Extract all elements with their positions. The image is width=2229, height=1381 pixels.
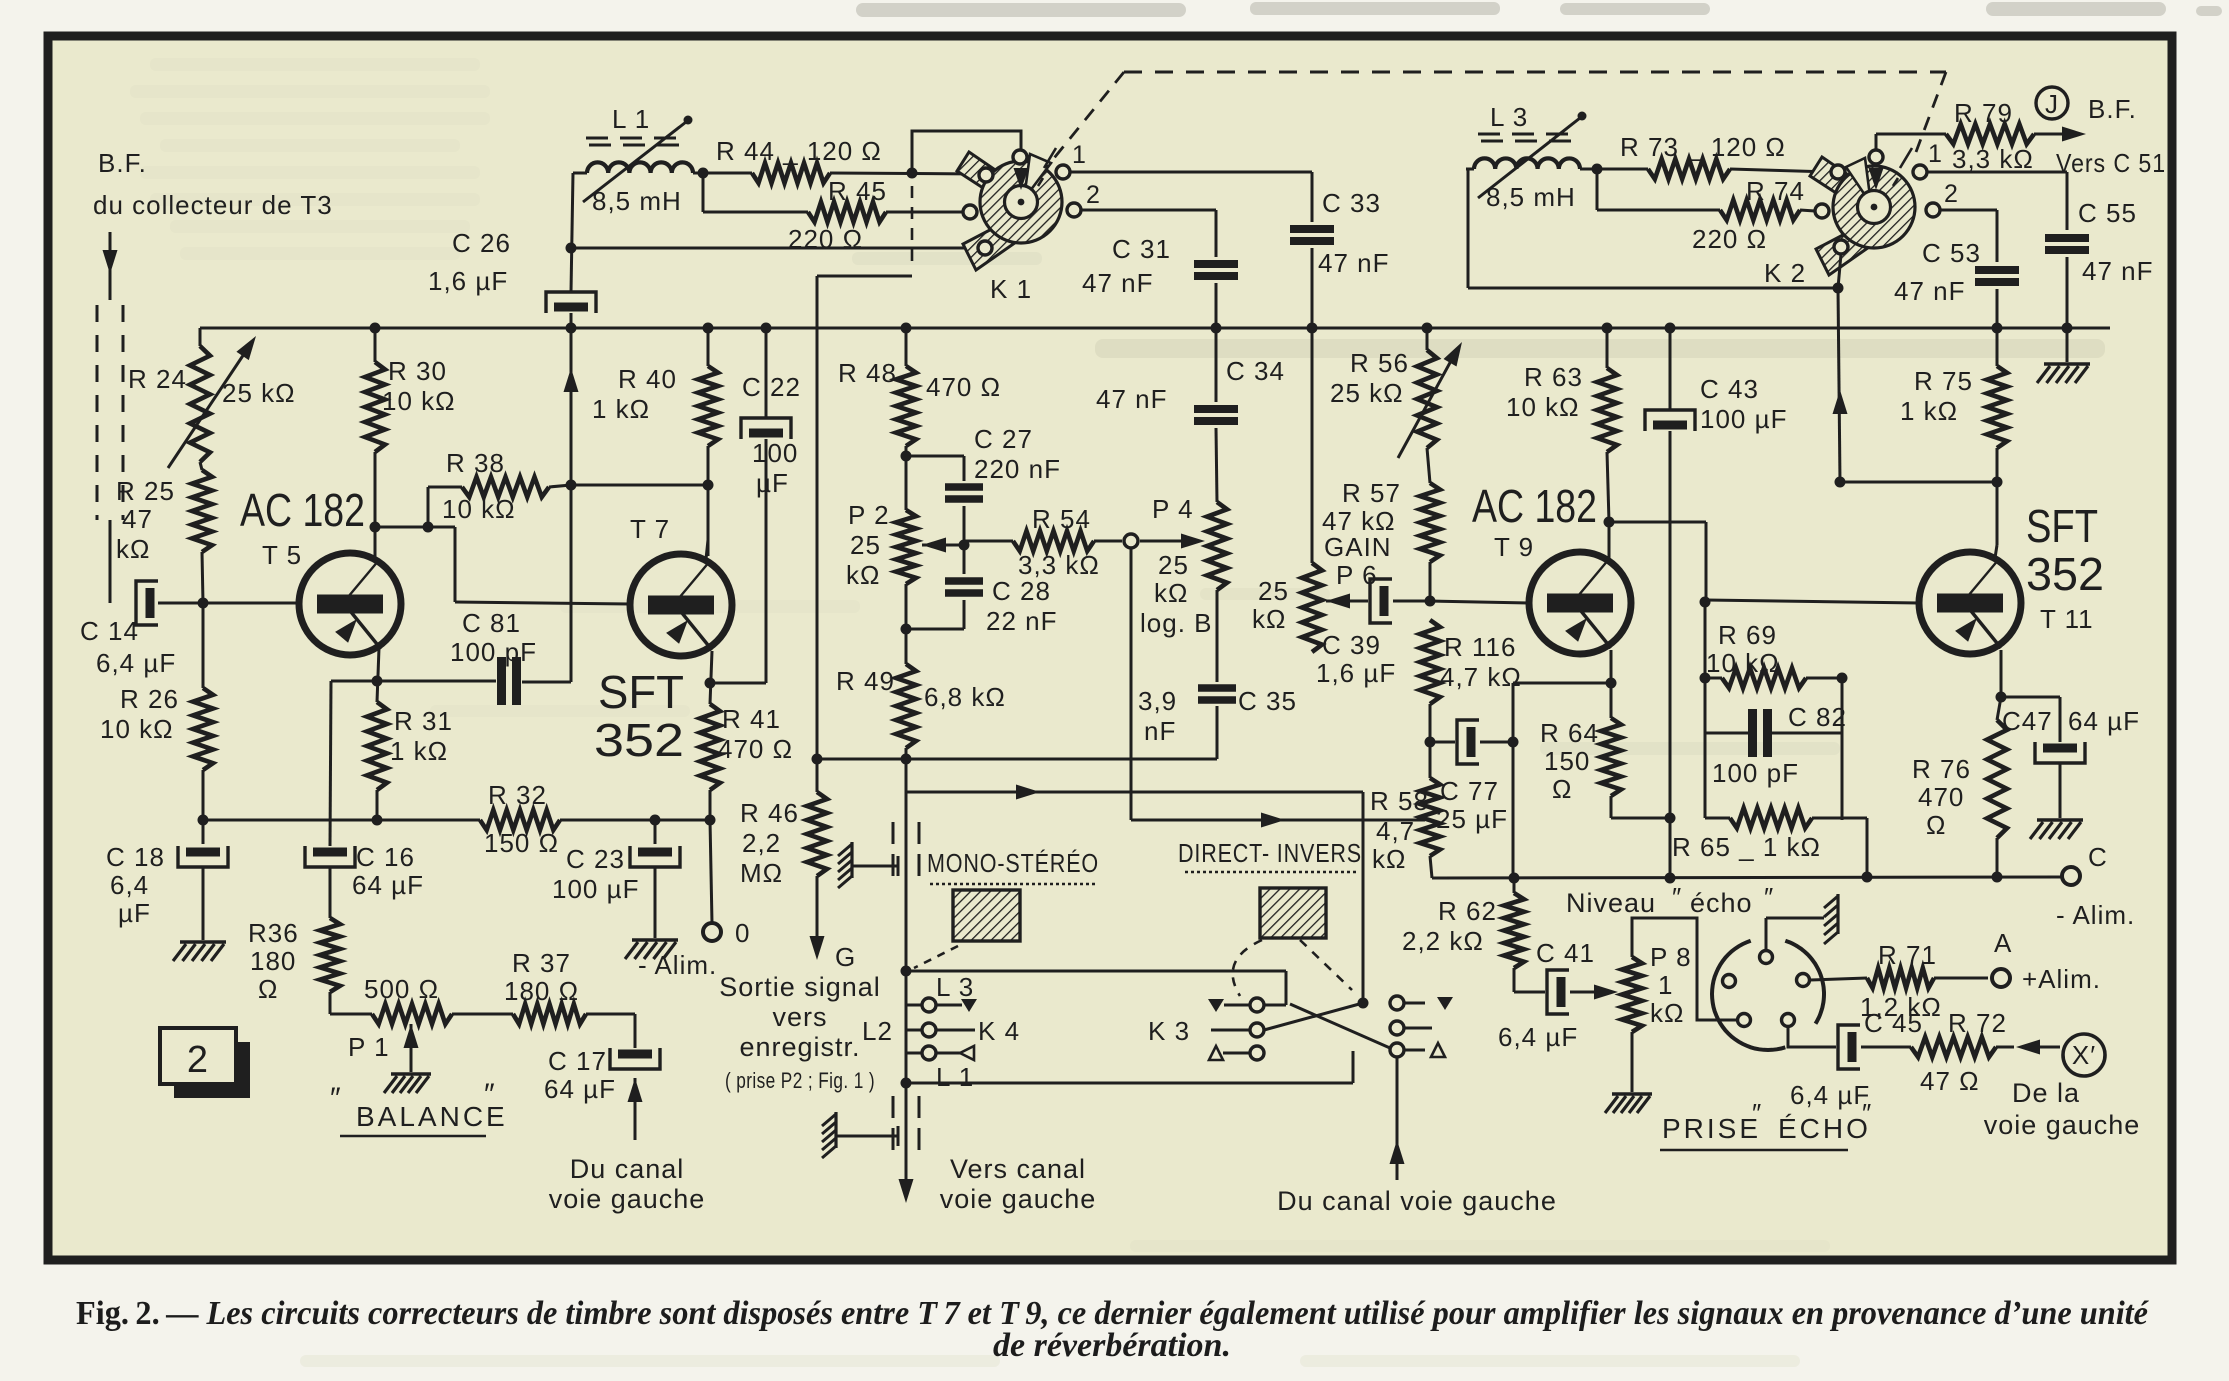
svg-text:4,7 kΩ: 4,7 kΩ bbox=[1440, 662, 1522, 692]
svg-text:kΩ: kΩ bbox=[1154, 578, 1188, 608]
wire T7 emitter bbox=[705, 651, 716, 704]
svg-text:100 µF: 100 µF bbox=[552, 874, 639, 904]
svg-text:2: 2 bbox=[187, 1039, 209, 1081]
wiper P6 bbox=[1326, 594, 1368, 609]
svg-text:180: 180 bbox=[250, 946, 296, 976]
svg-text:- Alim.: - Alim. bbox=[638, 950, 717, 980]
svg-text:C 39: C 39 bbox=[1322, 630, 1381, 660]
svg-text:AC 182: AC 182 bbox=[1472, 480, 1597, 532]
svg-text:1 kΩ: 1 kΩ bbox=[592, 394, 650, 424]
svg-text:C 16: C 16 bbox=[356, 842, 415, 872]
svg-text:C 27: C 27 bbox=[974, 424, 1033, 454]
wire T5 collector bbox=[370, 522, 381, 561]
svg-text:PRISE: PRISE bbox=[1662, 1113, 1761, 1144]
capacitor C82 100pF bbox=[1705, 678, 1847, 788]
svg-text:150: 150 bbox=[1544, 746, 1590, 776]
svg-text:8,5 mH: 8,5 mH bbox=[592, 186, 682, 216]
svg-text:22 nF: 22 nF bbox=[986, 606, 1058, 636]
svg-text:Vers C 51: Vers C 51 bbox=[2056, 148, 2166, 178]
node G label bbox=[835, 942, 856, 972]
svg-text:K 2: K 2 bbox=[1764, 258, 1806, 288]
svg-text:47 Ω: 47 Ω bbox=[1920, 1066, 1980, 1096]
wire K2 bottom to L3 loop bbox=[1838, 254, 1841, 288]
resistor R45 220R bbox=[788, 176, 887, 254]
svg-text:ÉCHO: ÉCHO bbox=[1778, 1113, 1871, 1144]
ground P1 wiper bbox=[384, 1074, 431, 1093]
text du canal voie gauche bbox=[549, 1154, 706, 1214]
svg-text:T 11: T 11 bbox=[2040, 604, 2094, 634]
wire T11 base bbox=[1706, 600, 1919, 603]
switch K2 wiper arrow bbox=[1869, 134, 1884, 190]
potentiometer P6 gain 25k bbox=[1252, 328, 1392, 652]
wire K1 contact2 to C31 bbox=[1081, 210, 1216, 257]
svg-text:P 1: P 1 bbox=[348, 1032, 390, 1062]
svg-text:150 Ω: 150 Ω bbox=[484, 828, 559, 858]
svg-text:P 8: P 8 bbox=[1650, 942, 1692, 972]
svg-text:C 53: C 53 bbox=[1922, 238, 1981, 268]
svg-text:L 3: L 3 bbox=[936, 972, 974, 1002]
resistor R24 (variable 25k) bbox=[128, 336, 296, 468]
svg-text:R36: R36 bbox=[248, 918, 299, 948]
transistor T11 SFT352 bbox=[1919, 500, 2104, 654]
svg-text:kΩ: kΩ bbox=[846, 560, 880, 590]
capacitor C39 1.6uF bbox=[1316, 579, 1430, 688]
svg-text:C 82: C 82 bbox=[1788, 702, 1847, 732]
svg-text:1: 1 bbox=[1072, 141, 1087, 169]
resistor R79 3.3k bbox=[1876, 98, 2086, 174]
svg-text:Ω: Ω bbox=[258, 974, 278, 1004]
svg-text:2: 2 bbox=[1086, 181, 1101, 209]
svg-text:µF: µF bbox=[756, 468, 789, 498]
svg-text:µF: µF bbox=[118, 898, 151, 928]
svg-text:47 nF: 47 nF bbox=[1096, 384, 1168, 414]
capacitor C34 47nF bbox=[1096, 328, 1285, 421]
wire K3 common up bbox=[1362, 792, 1365, 1003]
svg-text:R 54: R 54 bbox=[1032, 504, 1091, 534]
capacitor C41 6.4uF bbox=[1498, 938, 1618, 1052]
svg-text:10 kΩ: 10 kΩ bbox=[1706, 648, 1780, 678]
svg-text:R 46: R 46 bbox=[740, 798, 799, 828]
svg-text:10 kΩ: 10 kΩ bbox=[1506, 392, 1580, 422]
wire emitter to C22 bbox=[710, 682, 766, 685]
svg-text:voie gauche: voie gauche bbox=[1984, 1110, 2141, 1140]
ground below C47 bbox=[2030, 820, 2083, 839]
svg-text:B.F.: B.F. bbox=[98, 148, 147, 178]
svg-text:25: 25 bbox=[1158, 550, 1189, 580]
terminal 0 -Alim bbox=[638, 918, 750, 980]
resistor R65 1k bbox=[1672, 733, 1842, 862]
svg-text:C 23: C 23 bbox=[566, 844, 625, 874]
DIN pin right bbox=[1797, 974, 1868, 987]
svg-text:R 37: R 37 bbox=[512, 948, 571, 978]
svg-text:R 56: R 56 bbox=[1350, 348, 1409, 378]
transistor T9 AC182 bbox=[1472, 480, 1631, 654]
DIN pin bottom-left bbox=[1738, 1014, 1751, 1027]
svg-text:100 pF: 100 pF bbox=[1712, 758, 1799, 788]
svg-text:47: 47 bbox=[122, 504, 153, 534]
cable shield dashes lower bbox=[893, 1096, 919, 1150]
svg-text:10 kΩ: 10 kΩ bbox=[100, 714, 174, 744]
svg-text:T 5: T 5 bbox=[262, 540, 302, 570]
svg-text:C 45: C 45 bbox=[1864, 1008, 1923, 1038]
svg-text:R 31: R 31 bbox=[394, 706, 453, 736]
resistor R74 220R bbox=[1597, 169, 1815, 254]
svg-text:1 kΩ: 1 kΩ bbox=[1900, 396, 1958, 426]
arrow from X' bbox=[2016, 1040, 2060, 1055]
resistor R49 6.8k bbox=[836, 584, 1006, 792]
svg-text:8,5 mH: 8,5 mH bbox=[1486, 182, 1576, 212]
switch K1 wiper arrow bbox=[1014, 149, 1029, 190]
resistor R38 10k bbox=[428, 448, 571, 527]
ground DIN shield bbox=[1824, 894, 1838, 944]
svg-text:R 48: R 48 bbox=[838, 358, 897, 388]
svg-text:2,2 kΩ: 2,2 kΩ bbox=[1402, 926, 1484, 956]
svg-text:( prise P2 ; Fig. 1 ): ( prise P2 ; Fig. 1 ) bbox=[725, 1068, 875, 1093]
switch K1 terminal top bbox=[1013, 150, 1027, 164]
wire T7 collector bbox=[706, 540, 708, 559]
svg-text:0: 0 bbox=[735, 918, 750, 948]
switch K2 contact 1 bbox=[1913, 140, 1943, 179]
arrow from left channel into C17 bbox=[628, 1078, 643, 1140]
capacitor C81 100pF bbox=[450, 608, 537, 705]
svg-text:L 1: L 1 bbox=[936, 1062, 974, 1092]
transistor T7 SFT352 bbox=[594, 514, 732, 766]
resistor R64 150R bbox=[1540, 690, 1670, 818]
capacitor C35 3.9nF bbox=[1138, 590, 1297, 759]
resistor R62 2.2k bbox=[1402, 878, 1524, 992]
svg-text:500 Ω: 500 Ω bbox=[364, 974, 439, 1004]
capacitor C22 100uF bbox=[741, 328, 801, 683]
svg-text:P 4: P 4 bbox=[1152, 494, 1194, 524]
svg-text:C 41: C 41 bbox=[1536, 938, 1595, 968]
svg-text:K 1: K 1 bbox=[990, 274, 1032, 304]
mechanical dashes near K2 contact1 bbox=[1893, 148, 1912, 186]
svg-text:6,4 µF: 6,4 µF bbox=[1498, 1022, 1578, 1052]
resistor R44 120R bbox=[716, 136, 882, 183]
svg-text:R 64: R 64 bbox=[1540, 718, 1599, 748]
svg-text:47 nF: 47 nF bbox=[1318, 248, 1390, 278]
connector PRISE ECHO (DIN socket) bbox=[1712, 941, 1824, 1050]
capacitor C18 6.4uF bbox=[106, 820, 228, 940]
ground tap upper shield bbox=[838, 842, 898, 888]
mechanical link K1 (dashed) bbox=[817, 186, 912, 276]
switch K4 contact L1 bbox=[906, 1046, 974, 1092]
wire B.F. input shielded lead bbox=[97, 232, 123, 603]
resistor R26 10k bbox=[100, 603, 213, 815]
wire C81 right leg bbox=[522, 681, 571, 684]
svg-text:R 62: R 62 bbox=[1438, 896, 1497, 926]
svg-text:SFT: SFT bbox=[598, 666, 684, 718]
svg-text:Ω: Ω bbox=[1926, 810, 1946, 840]
wire C53 to bus bbox=[1996, 289, 1999, 328]
svg-text:de réverbération.: de réverbération. bbox=[993, 1327, 1231, 1364]
svg-text:Vers canal: Vers canal bbox=[950, 1154, 1086, 1184]
wire C34 to P4 bbox=[1216, 428, 1217, 502]
capacitor C27 220nF bbox=[906, 424, 1061, 545]
resistor R63 10k bbox=[1506, 328, 1617, 522]
svg-text:3,3 kΩ: 3,3 kΩ bbox=[1018, 550, 1100, 580]
wire tone output to R58 tap bbox=[1131, 813, 1425, 828]
switch K1 terminal bottom bbox=[978, 241, 992, 255]
svg-text:R 73 _ 120 Ω: R 73 _ 120 Ω bbox=[1620, 132, 1786, 162]
DIN pin bottom-right bbox=[1782, 1014, 1837, 1048]
wire P4 node down bbox=[1130, 548, 1133, 820]
wire P8 top bbox=[1632, 918, 1737, 1020]
svg-text:écho: écho bbox=[1690, 888, 1753, 918]
switch K1 contact 2 bbox=[1067, 181, 1101, 217]
resistor R36 180R bbox=[248, 918, 340, 1014]
svg-text:R 69: R 69 bbox=[1718, 620, 1777, 650]
wire emitter rail right bbox=[560, 815, 716, 826]
svg-text:G: G bbox=[835, 942, 856, 972]
wire emitter bypass bbox=[331, 680, 496, 683]
svg-text:voie gauche: voie gauche bbox=[940, 1184, 1097, 1214]
svg-text:kΩ: kΩ bbox=[1252, 604, 1286, 634]
wire C31 to bus bbox=[1215, 283, 1218, 328]
wire K2 feedback from T11 bbox=[1833, 288, 1848, 488]
switch K1 terminal left bbox=[963, 205, 977, 219]
svg-text:SFT: SFT bbox=[2026, 500, 2098, 552]
wire T11 collector link bbox=[1840, 481, 1997, 484]
svg-text:47 nF: 47 nF bbox=[1894, 276, 1966, 306]
ground below C55 bbox=[2037, 328, 2090, 383]
svg-text:Niveau: Niveau bbox=[1566, 888, 1656, 918]
svg-text:MONO-STÉRÉO: MONO-STÉRÉO bbox=[927, 848, 1099, 878]
svg-text:R 74: R 74 bbox=[1746, 176, 1805, 206]
svg-text:B.F.: B.F. bbox=[2088, 94, 2137, 124]
switch K4 contact L3 bbox=[906, 972, 977, 1012]
wire K1 top bracket bbox=[912, 131, 1021, 173]
wire R44 to K1 upper-left terminal bbox=[830, 168, 980, 179]
svg-text:25: 25 bbox=[850, 530, 881, 560]
svg-text:″: ″ bbox=[1672, 882, 1682, 912]
resistor R32 150R bbox=[480, 780, 560, 858]
wiper P2 bbox=[922, 538, 970, 553]
svg-text:3,9: 3,9 bbox=[1138, 686, 1177, 716]
svg-text:1,6 µF: 1,6 µF bbox=[428, 266, 508, 296]
svg-text:4,7: 4,7 bbox=[1376, 816, 1415, 846]
svg-text:De la: De la bbox=[2012, 1078, 2080, 1108]
wire C77 shunt to rail bbox=[1513, 683, 1610, 878]
svg-text:R 58: R 58 bbox=[1370, 786, 1429, 816]
svg-text:log. B: log. B bbox=[1140, 608, 1213, 638]
resistor R30 10k bbox=[365, 328, 456, 527]
ground below C18 bbox=[173, 942, 226, 961]
switch K4 contact L2 bbox=[862, 1016, 1020, 1046]
svg-text:C: C bbox=[2088, 842, 2108, 872]
resistor R56 25k variable bbox=[1330, 328, 1462, 458]
wire R69 node down bbox=[1841, 678, 1844, 820]
svg-text:voie gauche: voie gauche bbox=[549, 1184, 706, 1214]
svg-text:C 81: C 81 bbox=[462, 608, 521, 638]
switch K2 terminal bottom bbox=[1834, 240, 1848, 254]
wire K1 contact1 to C33 bbox=[1070, 172, 1312, 222]
text mono-stereo bbox=[927, 848, 1099, 884]
wire T5 bypass to C16 bbox=[330, 681, 331, 846]
inductor L1 8.5mH bbox=[573, 104, 693, 216]
wire L3 right bbox=[1580, 164, 1648, 175]
wire tone output rail bbox=[817, 758, 1217, 761]
svg-text:352: 352 bbox=[594, 714, 684, 766]
capacitor C55 47nF bbox=[2045, 198, 2154, 286]
svg-text:100: 100 bbox=[752, 438, 798, 468]
wire T5 collector to T7 base bbox=[377, 522, 631, 605]
switch K1 rotary disc bbox=[957, 152, 1062, 304]
resistor R71 1.2k bbox=[1860, 940, 1988, 1022]
svg-text:R 26: R 26 bbox=[120, 684, 179, 714]
inductor L3 8.5mH bbox=[1466, 102, 1587, 212]
svg-text:100 pF: 100 pF bbox=[450, 637, 537, 667]
wire K1 output to record tap bbox=[812, 276, 823, 792]
terminal C -Alim bbox=[2056, 842, 2135, 930]
wire node y248 to K1 bbox=[571, 247, 972, 250]
cable shield dashes upper bbox=[893, 822, 919, 876]
svg-text:C 14: C 14 bbox=[80, 616, 139, 646]
wire T9 collector to T11 base bbox=[1609, 522, 1706, 600]
svg-text:25: 25 bbox=[1258, 576, 1289, 606]
svg-text:- Alim.: - Alim. bbox=[2056, 900, 2135, 930]
text BALANCE bbox=[330, 1078, 508, 1136]
wire to 0 terminal bbox=[710, 820, 712, 923]
svg-text:64 µF: 64 µF bbox=[2068, 706, 2140, 736]
svg-text:R 25: R 25 bbox=[116, 476, 175, 506]
svg-text:220 Ω: 220 Ω bbox=[788, 224, 863, 254]
wire P8 bottom bbox=[1631, 1032, 1634, 1092]
capacitor C53 47nF bbox=[1894, 238, 2019, 306]
wire main bias bus bbox=[200, 323, 2110, 334]
resistor R72 47R bbox=[1911, 1008, 2014, 1096]
svg-text:180 Ω: 180 Ω bbox=[504, 976, 579, 1006]
wire to direct-invers switch bbox=[906, 759, 1363, 800]
terminal J B.F. bbox=[2036, 87, 2166, 178]
wire R25 to base node bbox=[202, 552, 203, 603]
svg-text:C 43: C 43 bbox=[1700, 374, 1759, 404]
svg-text:C 33: C 33 bbox=[1322, 188, 1381, 218]
svg-text:C 22: C 22 bbox=[742, 372, 801, 402]
svg-text:R 65 _ 1 kΩ: R 65 _ 1 kΩ bbox=[1672, 832, 1821, 862]
svg-text:C 28: C 28 bbox=[992, 576, 1051, 606]
svg-text:R 72: R 72 bbox=[1948, 1008, 2007, 1038]
wire K2 contact2 to C53 bbox=[1940, 210, 1997, 262]
resistor R69 10k bbox=[1705, 620, 1848, 688]
svg-text:K 4: K 4 bbox=[978, 1016, 1020, 1046]
wire R65 right down to rail bbox=[1812, 818, 1867, 877]
svg-text:1: 1 bbox=[1928, 140, 1943, 168]
text sortie signal bbox=[719, 972, 881, 1093]
wire T9 emitter bbox=[1606, 650, 1617, 690]
terminal A +Alim bbox=[1992, 928, 2101, 994]
capacitor C14 bbox=[80, 581, 176, 678]
svg-text:10 kΩ: 10 kΩ bbox=[442, 494, 516, 524]
wiper P4 bbox=[1140, 534, 1205, 549]
resistor R41 470R bbox=[700, 704, 793, 820]
wire K2 contact1 to C55 bbox=[1927, 172, 2067, 230]
svg-text:GAIN: GAIN bbox=[1324, 532, 1392, 562]
svg-text:C 17: C 17 bbox=[548, 1046, 607, 1076]
svg-text:″: ″ bbox=[1752, 1098, 1762, 1128]
capacitor C26 1.6uF bbox=[428, 228, 596, 328]
svg-text:K 3: K 3 bbox=[1148, 1016, 1190, 1046]
svg-text:25 kΩ: 25 kΩ bbox=[1330, 378, 1404, 408]
svg-text:R 116: R 116 bbox=[1444, 632, 1516, 662]
svg-text:R 49: R 49 bbox=[836, 666, 895, 696]
svg-text:R 45: R 45 bbox=[828, 176, 887, 206]
switch K2 terminal upper-left bbox=[1831, 165, 1845, 179]
svg-text:6,4 µF: 6,4 µF bbox=[1790, 1080, 1870, 1110]
potentiometer P8 1k bbox=[1622, 942, 1692, 1032]
resistor R40 1k bbox=[592, 328, 718, 556]
svg-text:470 Ω: 470 Ω bbox=[926, 372, 1001, 402]
svg-text:X′: X′ bbox=[2072, 1040, 2096, 1070]
resistor R46 2.2M bbox=[740, 792, 827, 888]
resistor R58 4.7k bbox=[1370, 742, 1440, 878]
svg-text:L 1: L 1 bbox=[612, 104, 650, 134]
svg-text:C 34: C 34 bbox=[1226, 356, 1285, 386]
switch K2 contact 2 bbox=[1926, 180, 1959, 217]
svg-text:A: A bbox=[1994, 928, 2012, 958]
wire K4 to K3 lower bbox=[906, 1051, 1353, 1083]
svg-text:470 Ω: 470 Ω bbox=[718, 734, 793, 764]
svg-text:220 nF: 220 nF bbox=[974, 454, 1061, 484]
svg-text:R 44 _ 120 Ω: R 44 _ 120 Ω bbox=[716, 136, 882, 166]
ground below P8 bbox=[1605, 1094, 1652, 1113]
capacitor C17 64uF bbox=[544, 1014, 660, 1104]
svg-text:du collecteur de T3: du collecteur de T3 bbox=[93, 190, 333, 220]
node junction P4 wiper bbox=[1124, 534, 1138, 548]
wire R45 to K1 left terminal bbox=[886, 211, 962, 214]
svg-text:10 kΩ: 10 kΩ bbox=[382, 386, 456, 416]
svg-text:DIRECT- INVERS: DIRECT- INVERS bbox=[1178, 838, 1362, 868]
resistor R54 3.3k bbox=[964, 504, 1122, 580]
capacitor C23 100uF bbox=[552, 820, 680, 938]
wire T9 base bbox=[1430, 601, 1529, 603]
svg-text:R 24: R 24 bbox=[128, 364, 187, 394]
wire C14 to T5 base bbox=[158, 598, 299, 609]
svg-text:R 32: R 32 bbox=[488, 780, 547, 810]
wire bus top-left corner bbox=[199, 328, 202, 346]
svg-text:2: 2 bbox=[1944, 180, 1959, 208]
capacitor C45 6.4uF bbox=[1790, 1008, 1923, 1110]
svg-text:6,4: 6,4 bbox=[110, 870, 149, 900]
svg-text:L 3: L 3 bbox=[1490, 102, 1528, 132]
svg-text:C 31: C 31 bbox=[1112, 234, 1171, 264]
node B.F. input label bbox=[93, 148, 333, 220]
wire base branch to R69 bbox=[1700, 597, 1711, 684]
svg-text:nF: nF bbox=[1144, 716, 1176, 746]
resistor R57 47k bbox=[1322, 448, 1440, 601]
svg-text:C 77: C 77 bbox=[1440, 776, 1499, 806]
svg-text:C 35: C 35 bbox=[1238, 686, 1297, 716]
capacitor C16 64uF bbox=[305, 842, 424, 918]
capacitor C31 47nF bbox=[1082, 234, 1238, 298]
svg-text:kΩ: kΩ bbox=[1372, 844, 1406, 874]
wire C33 to bus bbox=[1311, 248, 1314, 328]
switch K3 left contacts bbox=[1148, 998, 1286, 1060]
svg-text:R 75: R 75 bbox=[1914, 366, 1973, 396]
svg-text:47 nF: 47 nF bbox=[1082, 268, 1154, 298]
capacitor C33 47nF bbox=[1290, 188, 1390, 278]
resistor R75 1k bbox=[1900, 328, 2007, 545]
arrow vers canal bbox=[899, 1179, 914, 1203]
svg-text:T 7: T 7 bbox=[630, 514, 670, 544]
terminal X' de la voie gauche bbox=[1984, 1034, 2141, 1140]
resistor R37 180R bbox=[452, 948, 635, 1024]
svg-text:47 nF: 47 nF bbox=[2082, 256, 2154, 286]
switch K2 rotary disc bbox=[1764, 157, 1915, 288]
switch K1 terminal upper-left bbox=[979, 168, 993, 182]
switch K3 crossing bbox=[1264, 998, 1390, 1049]
svg-text:1 kΩ: 1 kΩ bbox=[390, 736, 448, 766]
